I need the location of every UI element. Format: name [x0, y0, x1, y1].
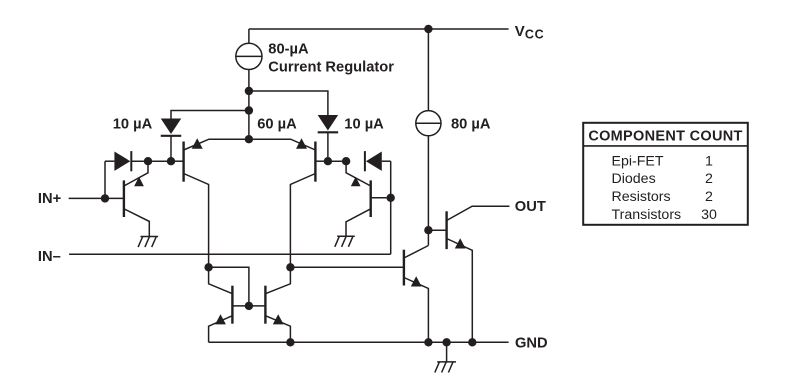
transistor Q2 base bar: [182, 142, 184, 182]
node output base junction: [424, 226, 432, 234]
wire 60uA to Q2 emitter: [184, 139, 249, 150]
emitter arrow Q4: [296, 138, 307, 149]
wire Q8 collector to OUT: [447, 206, 510, 220]
wire 80uA top lead: [427, 29, 429, 111]
wire IN+ riser: [105, 160, 114, 162]
emitter arrow Q6: [273, 314, 284, 324]
transistor Q8 base bar: [445, 211, 447, 249]
wire Q3 emitter: [346, 161, 371, 186]
wire VCC rail: [249, 28, 509, 30]
wire Q6 emitter: [265, 316, 290, 343]
wire D2 cathode to node: [327, 132, 329, 161]
svg-text:IN+: IN+: [38, 191, 61, 207]
wire regulator top lead: [248, 29, 250, 43]
svg-text:Current Regulator: Current Regulator: [268, 59, 394, 75]
node GND chassis junction: [442, 338, 450, 346]
transistor Q6 base bar: [264, 286, 266, 324]
transistor Q5 base bar: [231, 286, 233, 324]
current source 80uA: [416, 111, 441, 136]
wire 60uA to Q4 emitter: [249, 139, 316, 150]
wire IN+ lead: [69, 197, 124, 199]
wire D4 anode lead: [382, 160, 391, 162]
svg-text:30: 30: [701, 207, 717, 223]
emitter arrow Q2: [192, 138, 203, 149]
emitter arrow Q8: [455, 238, 466, 248]
wire Q7 base: [290, 266, 404, 268]
svg-text:80 µA: 80 µA: [451, 116, 491, 132]
node mirror emitter GND: [286, 338, 294, 346]
wire Q4 base: [315, 160, 328, 162]
svg-text:60 µA: 60 µA: [257, 117, 297, 133]
diode D1 10uA left: [161, 119, 182, 135]
svg-text:10 µA: 10 µA: [113, 117, 153, 133]
node VCC-80uA junction: [424, 25, 432, 33]
wire Q1 emitter: [124, 161, 148, 186]
wire D1 cathode to node: [170, 136, 172, 161]
svg-text:Epi-FET: Epi-FET: [612, 153, 664, 169]
wire Q3 base: [371, 197, 391, 199]
wire Q5 emitter: [209, 316, 233, 343]
wire Q2 collector: [184, 174, 209, 268]
svg-text:Diodes: Diodes: [612, 171, 656, 187]
diode D4 input clamp right: [364, 151, 366, 171]
node Q7 emitter GND: [424, 338, 432, 346]
svg-text:IN–: IN–: [38, 249, 61, 265]
component count table box: [583, 123, 748, 225]
wire Q7 collector: [404, 246, 429, 259]
wire Q1 collector: [124, 209, 149, 237]
node 60uA emitter node: [245, 135, 253, 143]
ground chassis right: [337, 235, 355, 237]
node mirror base junction: [245, 302, 253, 310]
node mirror left junction: [204, 263, 212, 271]
node left diode cathode junction: [144, 157, 152, 165]
wire node link right: [328, 160, 346, 162]
node IN+ junction: [101, 194, 109, 202]
transistor Q7 base bar: [403, 250, 405, 286]
transistor Q4 base bar: [314, 142, 316, 182]
emitter arrow Q1: [134, 177, 144, 187]
wire Q8 emitter: [447, 239, 473, 343]
wire mirror base tap: [209, 267, 249, 306]
svg-text:2: 2: [705, 171, 713, 187]
svg-text:OUT: OUT: [515, 199, 546, 215]
wire IN- lead: [69, 253, 391, 255]
node right diode cathode junction: [342, 157, 350, 165]
transistor Q1 base bar: [123, 180, 125, 217]
svg-text:80-µA: 80-µA: [268, 41, 309, 57]
wire Q8 base: [428, 229, 446, 231]
node mirror right junction: [286, 263, 294, 271]
node IN- junction: [387, 194, 395, 202]
wire GND rail: [209, 341, 509, 343]
wire Q7 emitter: [404, 278, 429, 343]
emitter arrow Q7: [411, 276, 422, 286]
svg-text:Resistors: Resistors: [612, 189, 671, 205]
svg-text:Transistors: Transistors: [612, 207, 682, 223]
emitter arrow Q5: [215, 314, 226, 324]
svg-text:GND: GND: [515, 336, 548, 352]
wire IN- riser: [390, 161, 392, 254]
svg-text:10 µA: 10 µA: [344, 117, 384, 133]
ground chassis center: [446, 342, 448, 362]
emitter arrow Q3: [351, 177, 361, 187]
node Q8 emitter GND: [468, 338, 476, 346]
wire Q3 collector: [346, 209, 371, 236]
wire Q6 collector: [265, 267, 290, 293]
svg-text:COMPONENT COUNT: COMPONENT COUNT: [588, 128, 742, 144]
diode D2 10uA right: [318, 115, 339, 131]
wire Q5 collector: [209, 267, 233, 293]
wire node link left: [148, 160, 171, 162]
wire Q2 base: [171, 160, 184, 162]
node regulator out A: [245, 87, 253, 95]
svg-text:2: 2: [705, 189, 713, 205]
wire to left 10uA diode: [171, 111, 249, 119]
wire mirror base link: [232, 305, 265, 307]
svg-text:1: 1: [705, 153, 713, 169]
node regulator out B: [245, 106, 253, 114]
current source 80-uA current regulator: [236, 43, 262, 69]
diode D3 input clamp left: [114, 152, 130, 171]
wire D3 cathode to node: [132, 160, 148, 162]
wire 80uA bottom lead: [427, 136, 429, 246]
wire Q4 collector: [290, 174, 315, 268]
node D2-Q4 base junction: [324, 157, 332, 165]
transistor Q3 base bar: [370, 180, 372, 217]
node D1-Q2 base junction: [167, 157, 175, 165]
ground chassis left: [141, 236, 159, 238]
wire regulator bottom lead: [248, 70, 250, 140]
wire to right 10uA diode: [249, 91, 328, 115]
